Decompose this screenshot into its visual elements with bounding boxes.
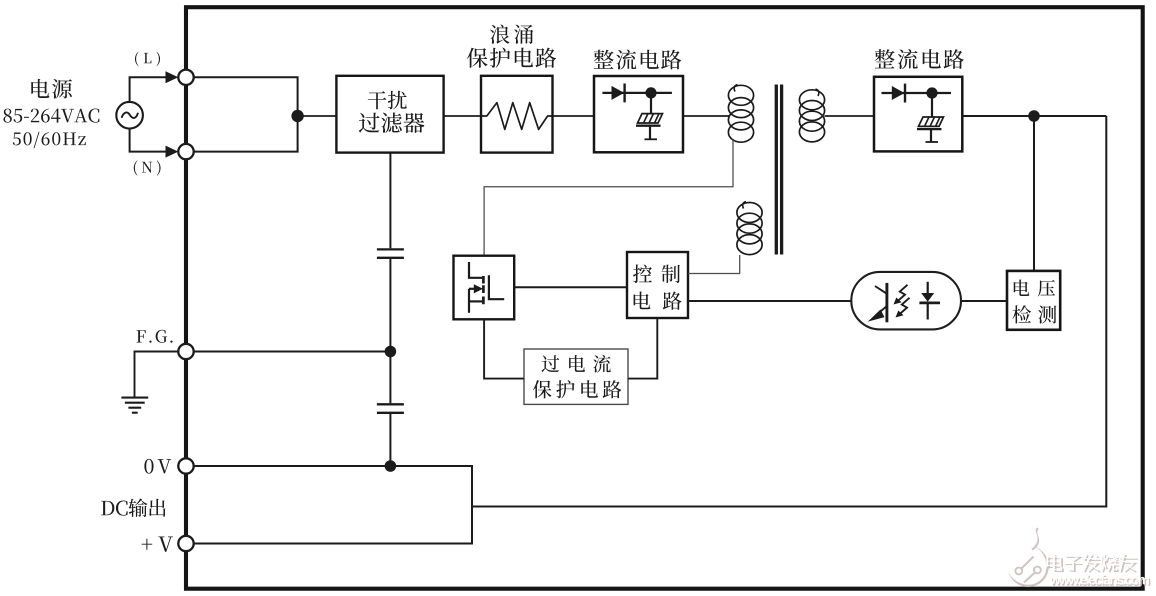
label 电源 <box>31 79 72 99</box>
label 检测 <box>1012 305 1056 323</box>
photocoupler LED <box>919 282 940 320</box>
watermark url www.elecfans.com <box>1050 574 1151 586</box>
label 控制 <box>633 265 680 283</box>
wire rectifier1 to primary <box>683 115 729 117</box>
wire output return <box>472 116 1106 507</box>
node rectifier2 out <box>926 87 937 98</box>
ac source V1 <box>116 102 143 129</box>
wire surge to rectifier1 <box>553 115 595 117</box>
wire N input <box>130 128 179 158</box>
photocoupler PC1 <box>851 272 961 330</box>
wire secondary to rectifier2 <box>825 115 875 117</box>
capacitor C3 <box>377 249 404 257</box>
wire L input <box>130 71 179 102</box>
diode D2 <box>882 84 952 103</box>
wire rectifier2 to output <box>962 115 1106 117</box>
label 0V <box>144 459 171 474</box>
wire junction to voltage detect <box>1033 116 1035 271</box>
resistor R1 <box>481 103 553 130</box>
label 50/60Hz <box>13 132 86 148</box>
photocoupler phototransistor <box>868 283 887 322</box>
photocoupler light arrows <box>894 285 910 318</box>
node FG junction <box>385 346 397 358</box>
wire filter ground line <box>389 153 391 466</box>
terminal L <box>178 70 193 85</box>
label (N) <box>134 160 161 175</box>
transformer T1 aux winding <box>737 202 762 255</box>
label 保护电路 <box>467 48 556 68</box>
label 整流电路 1 <box>594 50 682 70</box>
label 保护电路 2 <box>533 380 622 398</box>
wire FG bus <box>194 351 391 353</box>
terminal N <box>178 144 193 159</box>
wire control to overcurrent <box>628 318 657 379</box>
block voltage detect <box>1007 271 1060 330</box>
label +V <box>142 537 173 552</box>
block control circuit <box>627 252 688 318</box>
block rectifier2 <box>874 77 962 152</box>
label 85-264VAC <box>3 109 99 123</box>
block surge protect <box>481 76 553 153</box>
node input junction <box>291 110 303 122</box>
transformer T1 core <box>776 85 781 255</box>
terminal FG <box>178 344 193 359</box>
transformer T1 primary winding <box>728 85 753 143</box>
block rectifier1 <box>594 76 683 152</box>
watermark logo <box>1007 527 1048 586</box>
wire photocoupler to voltage detect <box>961 300 1007 302</box>
label 整流电路 2 <box>875 49 964 69</box>
label 电压 <box>1014 279 1055 296</box>
block overcurrent protect <box>524 349 628 404</box>
label 电路 <box>634 292 682 310</box>
label 过电流 <box>542 355 611 373</box>
label F.G. <box>136 330 172 343</box>
label 浪涌 <box>490 24 533 43</box>
wire input block <box>194 77 298 151</box>
label 干扰 <box>368 91 407 110</box>
wire primary to switch <box>484 140 733 256</box>
ground earth <box>121 398 148 413</box>
wire control to aux winding <box>688 255 740 274</box>
wire switch to overcurrent <box>484 319 524 378</box>
terminal +V <box>178 536 193 551</box>
wire switch to control <box>514 286 627 288</box>
block noise filter <box>336 76 443 153</box>
label 过滤器 <box>359 113 425 133</box>
terminal 0V <box>178 458 193 473</box>
wire control to photocoupler <box>688 300 852 302</box>
transistor Q1 MOSFET <box>469 262 504 313</box>
capacitor C2 smoothing <box>917 93 944 143</box>
label DC输出 <box>101 498 166 517</box>
block switching element <box>454 256 515 320</box>
wire DC output block <box>194 466 472 544</box>
wire to filter <box>298 115 337 117</box>
node output junction <box>1028 110 1040 122</box>
label (L) <box>135 52 160 67</box>
node 0V junction <box>385 460 397 472</box>
diode D1 <box>602 84 672 103</box>
node rectifier1 out <box>645 87 656 98</box>
transformer T1 secondary winding <box>799 89 824 142</box>
watermark text 电子发烧友 <box>1046 553 1138 573</box>
capacitor C4 <box>377 404 404 413</box>
wire FG to earth <box>135 352 179 397</box>
capacitor C1 smoothing <box>636 93 663 140</box>
wire filter to surge <box>444 115 481 117</box>
